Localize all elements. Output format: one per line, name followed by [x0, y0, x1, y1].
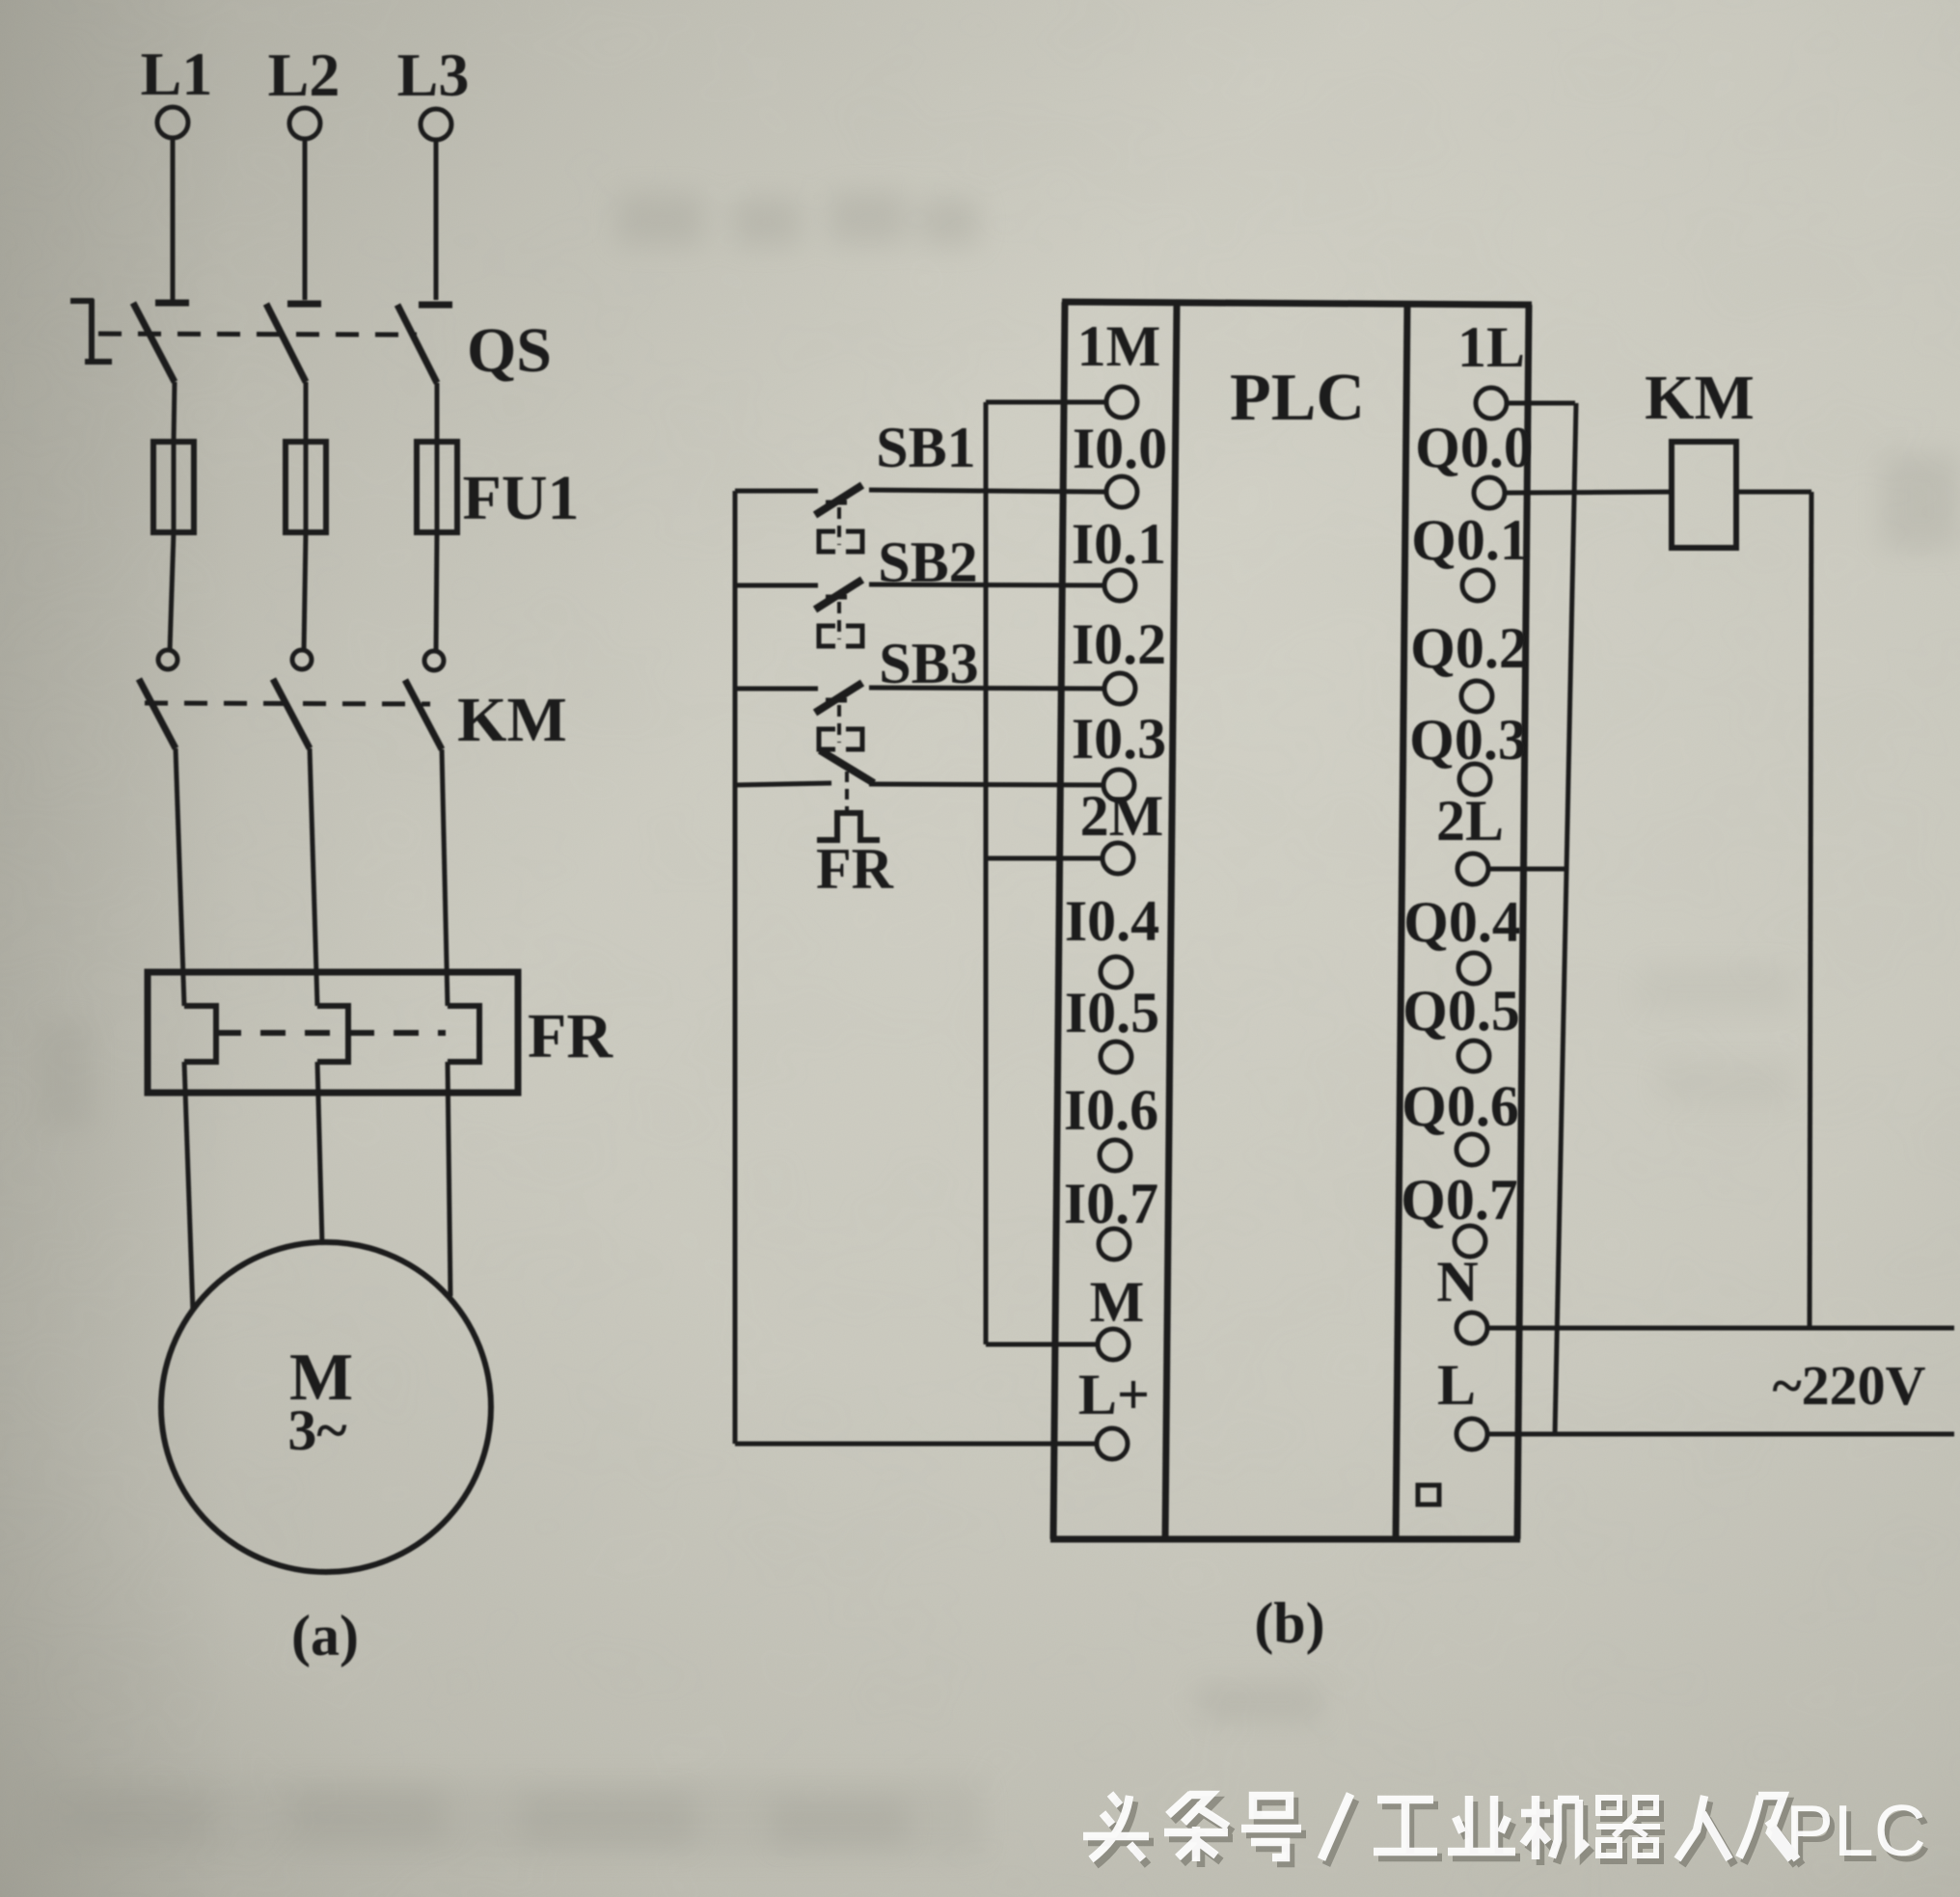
thermal relay FR box: [148, 972, 518, 1093]
pushbutton SB3 actuator dashed: [837, 705, 841, 743]
svg-text:Q0.3: Q0.3: [1409, 708, 1527, 772]
FR heater element 1: [184, 1006, 216, 1062]
wire FR1 to motor: [184, 1062, 193, 1312]
terminal Q0.1: [1462, 570, 1493, 601]
node L1 terminal: [157, 107, 188, 138]
wire L+ bus vertical: [733, 491, 738, 1444]
svg-text:~220V: ~220V: [1772, 1354, 1925, 1417]
svg-text:L2: L2: [268, 41, 340, 109]
svg-text:Q0.5: Q0.5: [1402, 979, 1520, 1043]
wire QS2 to FU2: [304, 382, 309, 442]
contactor KM pole 1 blade: [139, 679, 176, 748]
svg-text:SB2: SB2: [878, 530, 977, 594]
svg-text:(a): (a): [291, 1604, 359, 1667]
wire QS1 to FU1: [174, 382, 175, 442]
wire FU1 to KM1: [170, 532, 174, 651]
svg-text:SB3: SB3: [879, 632, 978, 695]
terminal M: [1098, 1329, 1129, 1360]
svg-text:L3: L3: [397, 41, 470, 109]
wire 1L to right bus: [1506, 401, 1575, 406]
fuse FU1 pole 1: [153, 442, 194, 532]
svg-text:I0.0: I0.0: [1073, 417, 1167, 480]
wire L2 to QS: [303, 140, 308, 300]
svg-text:I0.6: I0.6: [1064, 1078, 1158, 1142]
pushbutton SB1 head: [819, 531, 862, 552]
wire SB2 to I0.1: [869, 584, 1105, 585]
wire KM coil to N bus: [1736, 490, 1811, 495]
svg-text:Q0.0: Q0.0: [1415, 416, 1533, 479]
pushbutton SB1 blade: [815, 485, 862, 515]
switch QS pole 1 contact bar: [155, 300, 189, 307]
terminal Q0.6: [1456, 1134, 1487, 1165]
svg-text:I0.5: I0.5: [1065, 981, 1159, 1044]
PLC ground square: [1418, 1485, 1439, 1504]
wire KM3 to FR heater 3: [442, 749, 448, 1006]
terminal L+: [1097, 1428, 1128, 1459]
terminal I0.6: [1100, 1140, 1130, 1171]
svg-text:I0.7: I0.7: [1064, 1172, 1158, 1235]
switch QS pole 2 blade: [266, 304, 306, 382]
pushbutton SB1 left wire: [735, 489, 818, 494]
FR heater element 2: [317, 1006, 348, 1062]
PLC output terminal strip right edge: [1517, 305, 1529, 1539]
PLC input terminal strip left edge: [1053, 302, 1065, 1539]
svg-text:I0.1: I0.1: [1072, 512, 1166, 576]
terminal Q0.2: [1461, 681, 1492, 712]
pushbutton SB3 actuator cap: [826, 698, 847, 703]
wire M-bus vertical: [984, 402, 989, 1344]
pushbutton SB2 actuator cap: [826, 595, 847, 600]
wire FR3 to motor: [448, 1062, 450, 1296]
svg-text:1M: 1M: [1077, 314, 1161, 378]
svg-text:QS: QS: [467, 315, 552, 386]
svg-text:Q0.6: Q0.6: [1402, 1074, 1519, 1138]
wire FU3 to KM3: [436, 532, 437, 652]
terminal 2M: [1102, 843, 1133, 874]
wire FR2 to motor: [317, 1062, 322, 1244]
svg-text:FR: FR: [528, 1001, 613, 1071]
wire SB3 to I0.2: [869, 688, 1105, 689]
contactor KM pole 2 fixed contact: [292, 650, 312, 669]
wire KM2 to FR heater 2: [310, 748, 317, 1006]
wire bus to M terminal: [986, 1342, 1099, 1347]
node L3 terminal: [421, 109, 451, 140]
terminal I0.2: [1104, 673, 1135, 704]
wire L1 to QS: [171, 139, 176, 300]
svg-text:FR: FR: [816, 837, 894, 901]
switch QS pole 2 contact bar: [287, 301, 321, 308]
terminal I0.5: [1101, 1042, 1131, 1072]
pushbutton SB1 actuator cap: [826, 501, 847, 505]
wire L terminal to supply: [1486, 1432, 1954, 1437]
svg-text:I0.3: I0.3: [1072, 707, 1166, 771]
FR actuator dashed: [845, 772, 849, 810]
terminal I0.0: [1106, 476, 1137, 507]
terminal L output: [1456, 1419, 1487, 1450]
svg-text:M: M: [1090, 1270, 1145, 1334]
svg-text:L1: L1: [141, 40, 213, 108]
terminal 1M: [1106, 387, 1137, 418]
svg-text:Q0.7: Q0.7: [1401, 1168, 1518, 1232]
svg-text:3~: 3~: [287, 1398, 346, 1462]
svg-text:KM: KM: [457, 685, 567, 755]
wire L3 to QS: [434, 141, 439, 300]
FR contact left wire: [735, 783, 831, 785]
wire KM1 to FR heater 1: [176, 748, 184, 1006]
svg-text:Q0.2: Q0.2: [1410, 616, 1528, 680]
terminal I0.1: [1104, 570, 1135, 601]
wire FU2 to KM2: [304, 532, 306, 651]
motor M circle: [161, 1242, 491, 1572]
pushbutton SB3 head: [819, 729, 862, 749]
contactor KM linkage dashed: [145, 703, 430, 704]
PLC box bottom edge: [1050, 1536, 1520, 1543]
switch QS pole 3 contact bar: [419, 302, 452, 309]
svg-text:KM: KM: [1645, 363, 1755, 433]
switch QS pole 1 blade: [133, 303, 175, 382]
svg-text:L: L: [1437, 1353, 1476, 1417]
wire 2L to right bus: [1487, 867, 1567, 872]
FR thermal head: [817, 813, 880, 840]
pushbutton SB2 left wire: [735, 583, 818, 588]
wire L+ terminal: [735, 1442, 1098, 1447]
terminal Q0.4: [1458, 953, 1489, 984]
terminal N: [1456, 1313, 1487, 1343]
contactor KM pole 3 blade: [405, 680, 442, 749]
svg-text:I0.4: I0.4: [1065, 889, 1159, 953]
node L2 terminal: [289, 108, 320, 139]
pushbutton SB2 blade: [815, 580, 862, 610]
svg-text:Q0.1: Q0.1: [1411, 508, 1529, 572]
pushbutton SB3 blade: [815, 683, 862, 713]
pushbutton SB3 left wire: [735, 687, 818, 691]
wire FR to I0.3: [869, 784, 1104, 785]
terminal 2L: [1457, 854, 1488, 884]
wire KM vertical to N: [1810, 492, 1811, 1328]
wire N terminal to supply: [1486, 1326, 1954, 1331]
PLC input terminal strip right edge: [1165, 302, 1177, 1539]
svg-text:L+: L+: [1078, 1363, 1150, 1426]
wire QS3 to FU3: [435, 383, 440, 442]
svg-text:SB1: SB1: [876, 416, 975, 479]
svg-text:N: N: [1436, 1250, 1478, 1314]
right bus vertical 1L-2L-L: [1555, 403, 1576, 1434]
FR linkage dashed: [216, 1030, 446, 1036]
wire 2M to common bus: [986, 856, 1103, 861]
terminal Q0.0: [1474, 477, 1505, 508]
svg-text:Q0.4: Q0.4: [1403, 890, 1521, 954]
contactor KM pole 1 fixed contact: [158, 650, 177, 669]
pushbutton SB2 head: [819, 626, 862, 646]
terminal 1L: [1476, 388, 1507, 419]
svg-text:2L: 2L: [1436, 789, 1504, 853]
contactor KM pole 3 fixed contact: [424, 651, 444, 670]
FR contact blade: [820, 750, 874, 783]
pushbutton SB2 actuator dashed: [837, 602, 841, 639]
wire Q0.0 to KM coil: [1504, 492, 1672, 493]
svg-text:1L: 1L: [1457, 315, 1525, 379]
terminal Q0.5: [1458, 1041, 1489, 1071]
terminal I0.3: [1103, 770, 1134, 800]
PLC box top edge: [1062, 302, 1532, 305]
svg-text:(b): (b): [1254, 1591, 1324, 1655]
svg-text:FU1: FU1: [463, 463, 580, 533]
FR heater element 3: [448, 1006, 479, 1062]
svg-text:I0.2: I0.2: [1072, 612, 1166, 676]
switch QS linkage dashed: [98, 334, 417, 335]
terminal Q0.3: [1459, 764, 1490, 795]
terminal Q0.7: [1455, 1226, 1485, 1257]
switch QS pole 3 blade: [397, 305, 437, 383]
fuse FU1 pole 3: [417, 442, 457, 532]
fuse FU1 pole 2: [286, 442, 326, 532]
contactor coil KM: [1672, 442, 1736, 548]
wire SB1 to I0.0: [869, 490, 1107, 492]
terminal I0.4: [1101, 957, 1131, 988]
contactor KM pole 2 blade: [273, 679, 310, 748]
svg-text:PLC: PLC: [1230, 361, 1365, 435]
switch QS manual handle: [70, 299, 112, 362]
svg-text:2M: 2M: [1080, 784, 1164, 848]
terminal I0.7: [1099, 1229, 1130, 1260]
wire 1M to common bus: [986, 400, 1107, 405]
pushbutton SB1 actuator dashed: [837, 507, 841, 545]
PLC output terminal strip left edge: [1396, 305, 1407, 1539]
